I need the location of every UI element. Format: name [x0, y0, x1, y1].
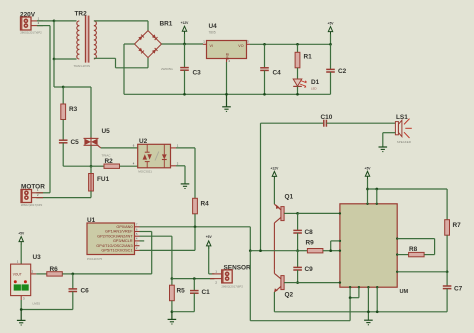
resistor R7 [445, 220, 461, 272]
wire GP2 to sensor node [140, 236, 172, 278]
svg-text:C7: C7 [454, 286, 463, 293]
wire FU1 to motor pin2 [36, 197, 91, 199]
node FU1 top [90, 165, 93, 168]
rail junction C3 [183, 93, 186, 96]
UM66 pin dots top [366, 203, 378, 205]
node C10 bottom [259, 249, 262, 252]
svg-text:U4: U4 [209, 23, 218, 30]
wire GP0 row [140, 226, 251, 228]
svg-text:C4: C4 [273, 70, 282, 77]
wire node A to TR2 primary top [54, 20, 77, 22]
triac U5 [84, 128, 112, 158]
wire pin to rail B [250, 298, 350, 321]
U2 pin2 lead [171, 161, 179, 166]
U4 pin 2 lead [227, 59, 231, 64]
wire GP0 node to R9 [250, 250, 297, 252]
resistor R2 [91, 158, 138, 168]
node C9 bottom [296, 281, 299, 284]
label U3 [33, 254, 42, 261]
svg-text:R2: R2 [105, 158, 114, 165]
ground symbol R5 [168, 312, 177, 324]
wire R7 feed row [368, 189, 448, 220]
U2 pin1 lead [171, 143, 179, 148]
svg-text:C1: C1 [202, 289, 211, 296]
node R9 left [296, 249, 299, 252]
sound IC UM66 [340, 204, 409, 295]
svg-text:28602(2017)6P2: 28602(2017)6P2 [221, 284, 243, 288]
ground symbol U3 [17, 310, 26, 326]
wire C10 to speaker [326, 122, 395, 124]
capacitor C8 [293, 213, 313, 250]
svg-text:C6: C6 [81, 288, 90, 295]
node C3 junction [183, 43, 186, 46]
wire TR2 secondary top to BR1 top [94, 21, 148, 31]
svg-text:C9: C9 [305, 266, 314, 273]
wire node B to TR2 primary bottom [54, 58, 77, 60]
transformer TR2 [74, 11, 97, 68]
svg-text:LED: LED [311, 87, 317, 91]
wire U4 output rail +5V [250, 43, 331, 45]
resistor R4 [193, 198, 210, 227]
wire U4 gnd down to rail [226, 62, 228, 94]
capacitor C4 [260, 44, 281, 94]
svg-text:7805: 7805 [209, 31, 216, 35]
node gnd rail A [367, 310, 370, 313]
svg-text:C5: C5 [71, 139, 80, 146]
wire Q2 base row [284, 282, 340, 284]
UM66 pin dots right [396, 237, 398, 273]
svg-text:VI: VI [210, 44, 213, 48]
wire R9 loop to UM66 pins [331, 241, 340, 251]
power +5V for sensor [206, 235, 215, 274]
ground symbol UM66 [364, 320, 373, 325]
svg-text:GP2/T0CKI/AN2/INT: GP2/T0CKI/AN2/INT [97, 234, 133, 238]
wire GP5 up to R4 node [140, 227, 196, 251]
UM66 pin dots bottom [349, 286, 379, 288]
wire GP1 to R6 node [73, 232, 152, 274]
svg-text:R3: R3 [69, 106, 78, 113]
capacitor C3 [180, 44, 201, 94]
wire 220V pin2 down to motor pin1 [36, 26, 50, 193]
fuse FU1 [89, 166, 110, 197]
capacitor C5 [59, 139, 79, 166]
wire C5 to FU1 node [63, 165, 91, 167]
wire base row to UM66 [298, 212, 340, 214]
ground symbol main rail [222, 94, 231, 111]
label SENSOR [224, 264, 252, 271]
wire UM66 pin to rail A [376, 287, 378, 312]
pin 2 lead of 220V connector [31, 21, 43, 26]
svg-text:+12V: +12V [181, 21, 190, 25]
regulator U4 7805 [207, 23, 247, 60]
U3 pin2 lead [31, 269, 37, 274]
svg-text:FU1: FU1 [97, 176, 110, 183]
resistor R9 [298, 240, 340, 253]
transistor Q2 [274, 273, 293, 298]
sensor pin2 lead [210, 279, 222, 285]
svg-text:LM35: LM35 [33, 302, 41, 306]
wire 220V pin1 to node A [37, 20, 54, 22]
svg-text:BR1: BR1 [160, 21, 173, 28]
svg-text:PIC12F675: PIC12F675 [87, 257, 103, 261]
svg-text:28602(2017)6P2: 28602(2017)6P2 [20, 30, 42, 34]
svg-text:GP4/T1G/OSC2/AN3: GP4/T1G/OSC2/AN3 [96, 244, 132, 248]
rail junction D1 [296, 93, 299, 96]
capacitor C6 [69, 274, 90, 310]
wire triac MT1 down [90, 145, 92, 166]
node loop split [349, 296, 352, 299]
node U3 gnd [20, 308, 23, 311]
svg-text:C8: C8 [305, 229, 314, 236]
svg-text:UM: UM [400, 289, 409, 295]
wire speaker bottom to ground [383, 133, 396, 147]
svg-text:C10: C10 [321, 114, 333, 121]
wire snubber top [63, 87, 91, 138]
svg-text:GP5/T1CKI/OSC1: GP5/T1CKI/OSC1 [101, 249, 132, 253]
sensor U3 LM35 [11, 264, 41, 305]
capacitor C2 [326, 44, 346, 94]
ground symbol speaker [379, 147, 388, 152]
node GP0 riser [249, 249, 252, 252]
svg-text:R5: R5 [177, 288, 186, 295]
ground rail wire [124, 93, 331, 95]
wire UM66 to R7C7 node [397, 271, 447, 273]
node +5V R7 row [366, 188, 369, 191]
LED D1 [293, 79, 319, 94]
capacitor C9 [293, 251, 313, 283]
wire node B down to snubber rail [54, 59, 63, 87]
svg-text:C2: C2 [338, 68, 347, 75]
label 220V [20, 12, 36, 19]
node C1 top [193, 277, 196, 280]
wire GP0 down to R9 row [249, 227, 251, 251]
wire UM66 second top pin [376, 189, 378, 204]
wire C6 to U3 gnd [21, 300, 73, 310]
U3 pin1 mark [17, 259, 19, 263]
node R1 [296, 43, 299, 46]
wire BR1 minus to ground rail [124, 44, 135, 94]
connector MOTOR [21, 190, 43, 208]
node R5 top [171, 277, 174, 280]
svg-text:U3: U3 [33, 254, 42, 261]
wire Q2 emitter to rail A [274, 292, 447, 312]
wire rail B riser [249, 251, 251, 321]
pin 1 lead of 220V connector [31, 16, 43, 21]
svg-text:+5V: +5V [365, 166, 372, 170]
U2 pin6 lead [133, 143, 135, 147]
node R4 bottom [194, 225, 197, 228]
wire Q1 collector down [273, 223, 275, 270]
U4 pin 3 lead [247, 40, 251, 45]
svg-text:+5V: +5V [206, 235, 213, 239]
wire triac gate to U2 pin6 [101, 147, 138, 149]
node C8 top [296, 212, 299, 215]
resistor R8 [397, 239, 434, 257]
power +12V [181, 21, 190, 44]
rail junction C4 [263, 93, 266, 96]
wire UM66 gnd pin [367, 287, 369, 320]
node UM66 pin2 top [375, 188, 378, 191]
power +12V for Q1 [271, 166, 280, 204]
svg-text:+12V: +12V [271, 166, 280, 170]
svg-text:R1: R1 [304, 54, 313, 61]
U4 pin 1 lead [203, 40, 207, 45]
capacitor C7 [443, 272, 463, 312]
wire C1 bottom to R5 bottom [172, 311, 194, 313]
svg-text:Q1: Q1 [285, 193, 294, 200]
power +5V top [328, 22, 335, 45]
svg-text:U5: U5 [102, 128, 111, 135]
wire TR2 secondary bottom to BR1 bottom [94, 58, 148, 68]
bridge rectifier BR1 [135, 21, 174, 72]
svg-text:VOUT: VOUT [13, 272, 22, 276]
capacitor C1 [190, 279, 210, 312]
U2 pin4 lead [133, 162, 135, 166]
svg-text:VO: VO [238, 44, 243, 48]
wire node A down to node B [53, 21, 55, 59]
svg-text:SPEAKER: SPEAKER [397, 140, 412, 144]
svg-text:GP0/AN0: GP0/AN0 [116, 225, 132, 229]
svg-text:GP3/MCLR: GP3/MCLR [113, 239, 133, 243]
svg-text:TRIAC: TRIAC [102, 154, 112, 158]
node R9 loop [329, 249, 332, 252]
connector SENSOR [221, 270, 243, 289]
microcontroller U1 PIC12F675 [87, 217, 140, 261]
wire UM66 bottom pin loop [350, 287, 359, 298]
svg-text:MOC3021: MOC3021 [138, 169, 152, 173]
ground symbol U2 [181, 184, 190, 189]
node R5 bottom [171, 310, 174, 313]
sensor pin1 lead [212, 269, 222, 274]
wire sensor row [172, 278, 215, 280]
node A junction [53, 20, 56, 23]
resistor R3 [61, 87, 78, 140]
wire U2 pin1 to R4 [176, 148, 195, 198]
wire BR1 plus to U4 input [162, 43, 204, 45]
UM66 pin dots left [339, 212, 341, 284]
svg-text:R7: R7 [453, 222, 462, 229]
motor pin 1 lead [32, 188, 44, 193]
svg-text:R9: R9 [306, 240, 315, 247]
resistor R5 [170, 279, 186, 312]
power +5V for U3 [18, 232, 25, 265]
wire Q1 base row [284, 212, 298, 214]
svg-text:C3: C3 [193, 70, 202, 77]
svg-text:R4: R4 [201, 201, 210, 208]
motor pin 2 lead [32, 193, 44, 197]
transistor Q1 [274, 193, 293, 223]
node B junction [53, 58, 56, 61]
rail junction U4 gnd [225, 93, 228, 96]
label MOTOR [21, 184, 45, 191]
speaker LS1 [395, 114, 411, 144]
optocoupler U2 MOC3021 [138, 138, 171, 173]
node C4 [263, 43, 266, 46]
svg-text:D1: D1 [311, 79, 320, 86]
svg-text:TRAN-2P2S: TRAN-2P2S [74, 64, 91, 68]
connector J1 220V [20, 17, 42, 34]
U3 pin3 lead [21, 296, 25, 301]
svg-text:GP1/AN1/VREF: GP1/AN1/VREF [105, 230, 133, 234]
capacitor C10 [321, 114, 333, 127]
resistor R6 [36, 266, 73, 276]
node pin rail A [376, 310, 379, 313]
power +5V for UM66 [365, 166, 372, 204]
svg-text:28602(2017)6P2: 28602(2017)6P2 [21, 203, 43, 207]
svg-text:+5V: +5V [18, 232, 25, 236]
node C2 corner [329, 43, 332, 46]
svg-text:2W005G: 2W005G [161, 67, 174, 71]
svg-text:Q2: Q2 [285, 292, 294, 299]
wire U2 pin2 to ground [176, 166, 185, 184]
svg-text:R6: R6 [50, 266, 59, 273]
svg-text:+5V: +5V [328, 22, 335, 26]
wire GP3 stub [140, 240, 145, 242]
resistor R1 [295, 44, 312, 79]
wire Q2 collector up [273, 270, 275, 274]
node R7 C7 [446, 270, 449, 273]
node R3 top [62, 86, 65, 89]
wire R9 node to C10 [261, 123, 324, 251]
node C6 [71, 273, 74, 276]
